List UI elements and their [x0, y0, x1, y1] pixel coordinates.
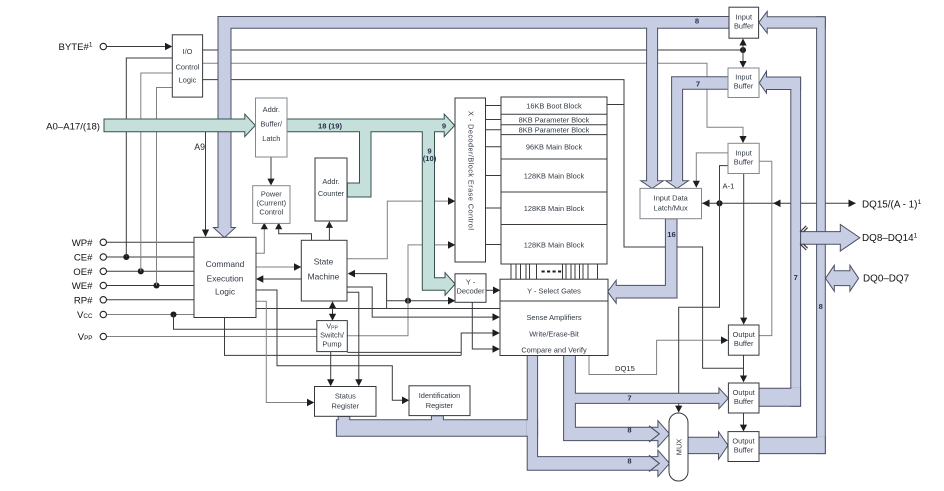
wire CE# riser to I/O Control Logic: [126, 58, 172, 257]
svg-text:A9: A9: [194, 142, 205, 152]
svg-text:Latch: Latch: [262, 134, 280, 143]
wire state machine to status register: [347, 292, 362, 386]
block Addr Counter: [315, 158, 347, 221]
bus junction seam patch input buffer 2 bar to DQ8 vertical: [791, 89, 800, 91]
block I/O Control Logic: [172, 35, 202, 97]
wire Vcc branch to Vpp switch: [174, 315, 317, 330]
svg-text:(10): (10): [423, 154, 437, 163]
svg-text:Control: Control: [176, 62, 200, 71]
wire Vpp switch to status register: [327, 352, 334, 387]
wire input buffer 1-2 link: [739, 38, 746, 68]
svg-text:Latch/Mux: Latch/Mux: [654, 204, 688, 213]
svg-text:8: 8: [627, 457, 631, 466]
block Command Execution Logic: [194, 237, 256, 317]
svg-text:MUX: MUX: [675, 439, 684, 455]
svg-text:Y - Select Gates: Y - Select Gates: [527, 287, 581, 296]
wire OE# riser to I/O Control Logic: [141, 73, 173, 271]
bus address 18(19) to X-decoder with branches: [287, 114, 455, 295]
block Input Buffer 2: [728, 68, 759, 98]
bus input buffer 1 right arrow: [759, 11, 826, 33]
svg-text:DQ0–DQ7: DQ0–DQ7: [863, 274, 909, 285]
block Status Register: [315, 387, 377, 417]
svg-text:128KB Main Block: 128KB Main Block: [524, 172, 585, 181]
svg-text:128KB Main Block: 128KB Main Block: [524, 241, 585, 250]
bus DQ8-DQ14 pad arrow: [801, 224, 860, 251]
wire Y-decoder to Y-select gates: [486, 287, 500, 295]
block Power (Current) Control: [253, 186, 290, 224]
wire CEL to sense amp: [256, 308, 500, 310]
bus DQ0-DQ7 pad arrow bidirectional: [826, 265, 859, 291]
pin circle WE#: [100, 282, 106, 288]
svg-text:OE#: OE#: [73, 267, 93, 278]
wire WE# riser to I/O Control Logic: [157, 88, 173, 286]
block MUX: [669, 413, 688, 481]
wire X-decoder to array stubs: [486, 106, 502, 245]
wire I/O out1 to input buffer column: [203, 49, 743, 51]
wire feedback riser to state machine: [348, 270, 387, 309]
wire input buffer 3 to input data latch: [693, 153, 728, 188]
wire state machine to X-decoder upper: [347, 197, 455, 258]
pin WE# wire: [107, 285, 194, 287]
wire I/O out3 to output buffer 2: [203, 80, 744, 369]
bus address A0-A17 into addr buffer: [104, 114, 255, 136]
bus jog chevron DQ8-14 left: [800, 226, 808, 232]
bus jog chevron DQ8-14 at DQ0-7 crossing: [800, 244, 808, 250]
svg-text:Output: Output: [733, 388, 755, 397]
wire riser to sense amp 2: [461, 329, 500, 355]
svg-text:Output: Output: [732, 437, 754, 446]
wire state machine to power control: [275, 223, 311, 241]
wire array bottom ticks: [511, 265, 598, 280]
svg-text:Counter: Counter: [318, 189, 345, 198]
pin OE# wire: [107, 270, 194, 272]
bus DQ8-DQ14 vertical: [791, 77, 801, 406]
svg-text:Control: Control: [259, 208, 283, 217]
svg-text:Buffer: Buffer: [734, 82, 754, 91]
svg-text:Power: Power: [261, 190, 282, 199]
svg-text:DQ15/(A - 1)1: DQ15/(A - 1)1: [862, 199, 921, 211]
wire output buffer 2 to 3: [740, 413, 747, 432]
block Input Buffer 3: [728, 143, 759, 173]
svg-text:Buffer: Buffer: [734, 339, 754, 348]
bus junction seam patch top bus to 8 branch: [647, 27, 657, 29]
svg-text:Buffer: Buffer: [734, 446, 754, 455]
node Vcc junction: [170, 311, 176, 317]
bus DQ0-DQ7 vertical: [817, 17, 826, 454]
svg-text:Register: Register: [426, 401, 454, 410]
block Output Buffer 1: [728, 325, 759, 355]
svg-text:7: 7: [696, 80, 700, 89]
svg-text:Buffer/: Buffer/: [260, 120, 283, 129]
wire CEL bottom to riser: [225, 318, 462, 356]
svg-text:Input: Input: [735, 149, 751, 158]
svg-text:DQ15: DQ15: [615, 364, 635, 373]
svg-text:8KB Parameter Block: 8KB Parameter Block: [519, 115, 590, 124]
svg-text:RP#: RP#: [74, 295, 93, 306]
node array ellipsis dots: [542, 271, 545, 273]
pin circle Vcc: [100, 311, 106, 317]
wire input buffer 3 pad riser: [759, 161, 772, 335]
wire input buffer 3 to output buffer 1: [740, 174, 747, 325]
block Output Buffer 3: [728, 432, 759, 462]
bus output buffer 2 right link: [759, 388, 801, 406]
svg-text:A-1: A-1: [723, 182, 735, 191]
svg-text:WP#: WP#: [72, 238, 93, 249]
pin circle BYTE#: [100, 43, 106, 49]
bus register output rail: [336, 416, 537, 436]
bus jog chevron MUX lower: [649, 455, 659, 471]
block Input Buffer 1: [729, 7, 759, 38]
pin Vpp wire: [107, 336, 317, 338]
bus 16-bit from input data latch to Y-select gates: [608, 219, 677, 304]
wire Vpp bottom rail: [347, 351, 461, 353]
bus output buffer 3 right link: [759, 437, 825, 453]
wire Y-decoder bottom to sense amp 3: [472, 302, 500, 353]
bus input buffer 2 right arrow: [759, 71, 800, 93]
wire DQ15 to output buffer 1: [589, 336, 728, 374]
svg-text:BYTE#1: BYTE#1: [58, 42, 92, 54]
wire I/O out2 to input buffer 3: [203, 63, 747, 143]
wire Vpp switch riser to X-decoder lower: [347, 241, 455, 336]
bus 8-bit write branch to input data latch: [641, 28, 664, 188]
bus sense amp to MUX upper 8 and output buffer 2 7-bit: [564, 356, 729, 448]
node DQ15 A-1 junction: [716, 200, 722, 206]
svg-text:18 (19): 18 (19): [318, 121, 343, 130]
svg-text:16: 16: [667, 230, 675, 239]
svg-text:Logic: Logic: [179, 75, 197, 84]
svg-text:Write/Erase-Bit: Write/Erase-Bit: [529, 330, 579, 339]
wire state machine to Vpp switch: [329, 301, 336, 321]
node OE# junction: [138, 268, 144, 274]
svg-text:8KB Parameter Block: 8KB Parameter Block: [519, 126, 590, 135]
svg-text:State: State: [314, 257, 334, 267]
block Y-Select Gates: [500, 279, 608, 301]
pin RP# wire: [107, 299, 194, 301]
wire to Y-decoder: [387, 297, 456, 305]
svg-text:Register: Register: [332, 402, 360, 411]
wire DQ15 pad line: [702, 200, 856, 208]
svg-text:96KB Main Block: 96KB Main Block: [526, 143, 583, 152]
svg-text:Command: Command: [206, 259, 245, 269]
svg-text:Switch/: Switch/: [320, 331, 345, 340]
svg-text:WE#: WE#: [72, 281, 93, 292]
wire state machine to addr counter: [326, 221, 333, 240]
block Vpp Switch/Pump: [317, 321, 348, 352]
svg-text:Output: Output: [733, 330, 755, 339]
pin circle WP#: [100, 239, 106, 245]
wire CEL to identification register: [256, 290, 409, 404]
bus jog chevron MUX upper: [649, 426, 659, 442]
svg-text:Identification: Identification: [419, 391, 461, 400]
node CE# junction: [123, 254, 129, 260]
bus junction seam patch output buffer 3 bar to DQ0 vertical: [817, 437, 825, 439]
wire output buffer 1 to 2: [740, 355, 747, 382]
bus 7-bit write branch to input data latch: [666, 77, 729, 189]
bus junction seam patch input buffer 1 bar to DQ0 vertical: [817, 27, 825, 29]
svg-text:(Current): (Current): [257, 199, 287, 208]
svg-text:Logic: Logic: [215, 287, 235, 297]
svg-text:8: 8: [695, 16, 699, 25]
bus junction seam patch register rail to lower 8: [527, 420, 529, 435]
svg-text:I/O: I/O: [183, 47, 193, 56]
svg-text:8: 8: [627, 426, 631, 435]
svg-text:Input: Input: [736, 13, 752, 22]
svg-text:X - Decoder/Block Erase Contro: X - Decoder/Block Erase Control: [466, 111, 475, 230]
svg-text:Decoder: Decoder: [457, 287, 485, 296]
wire boot block stub: [607, 104, 624, 106]
svg-text:Input Data: Input Data: [654, 194, 689, 203]
svg-text:Buffer: Buffer: [734, 22, 754, 31]
pin circle Vpp: [100, 333, 106, 339]
svg-text:Sense Amplifiers: Sense Amplifiers: [526, 313, 581, 322]
wire CEL to status register: [256, 301, 314, 406]
node I/O out1 junction: [740, 47, 746, 53]
svg-text:8: 8: [819, 302, 823, 311]
wire addr buffer to power control: [267, 157, 274, 186]
block Sense Amplifiers: [500, 301, 608, 356]
svg-text:16KB Boot Block: 16KB Boot Block: [526, 102, 582, 111]
svg-text:9: 9: [442, 121, 446, 130]
svg-text:CE#: CE#: [74, 253, 93, 264]
block Y-Decoder: [455, 274, 486, 303]
block X-Decoder/Block Erase Control: [455, 98, 486, 262]
svg-text:Execution: Execution: [207, 274, 244, 284]
block Output Buffer 2: [728, 383, 759, 413]
block Input Data Latch/Mux: [640, 188, 702, 218]
wire CEL to state machine: [256, 263, 301, 271]
pin CE# wire: [107, 256, 194, 258]
bus sense amp to MUX lower 8: [527, 356, 669, 477]
svg-text:Machine: Machine: [308, 271, 340, 281]
block memory array: [501, 97, 607, 264]
pin BYTE# wire: [107, 43, 173, 51]
bus MUX to output buffer 3: [688, 432, 728, 460]
pin circle OE#: [100, 268, 106, 274]
svg-text:Addr.: Addr.: [263, 105, 280, 114]
svg-text:Compare and Verify: Compare and Verify: [521, 345, 587, 354]
pin circle RP#: [100, 297, 106, 303]
wire state machine to sense amp 1: [347, 287, 500, 321]
pin circle CE#: [100, 254, 106, 260]
node WE# junction: [153, 282, 159, 288]
wire state machine to CEL: [256, 275, 301, 283]
bus top write bus with arrow into CEL: [213, 17, 729, 238]
pin Vcc wire: [107, 314, 194, 316]
svg-text:DQ8–DQ141: DQ8–DQ141: [862, 233, 918, 245]
block Addr Buffer/Latch: [256, 98, 288, 157]
svg-text:Input: Input: [735, 73, 751, 82]
svg-text:Status: Status: [335, 392, 356, 401]
block State Machine: [301, 240, 347, 301]
pin WP# wire: [107, 241, 194, 243]
svg-text:Addr.: Addr.: [322, 177, 339, 186]
bus junction seam patch output buffer 2 bar to DQ8 vertical: [791, 388, 800, 390]
svg-text:7: 7: [794, 273, 798, 282]
svg-text:Buffer: Buffer: [734, 397, 754, 406]
svg-text:Pump: Pump: [322, 340, 341, 349]
wire A-1 select to MUX: [675, 166, 728, 413]
wire CEL to power control: [256, 223, 268, 254]
block Identification Register: [409, 386, 470, 416]
svg-text:Y -: Y -: [466, 277, 476, 286]
svg-text:7: 7: [627, 394, 631, 403]
wire A9: [202, 132, 209, 237]
node Y-decoder wire junction: [405, 298, 411, 304]
svg-text:128KB Main Block: 128KB Main Block: [524, 204, 585, 213]
svg-text:Buffer: Buffer: [734, 158, 754, 167]
svg-text:A0–A17/(18): A0–A17/(18): [46, 122, 100, 133]
